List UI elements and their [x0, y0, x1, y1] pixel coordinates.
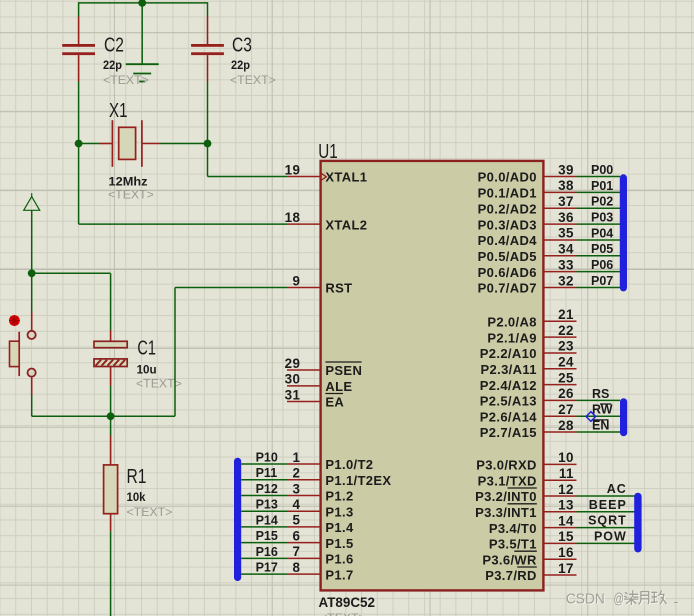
svg-text:P07: P07	[591, 274, 613, 288]
svg-text:18: 18	[285, 210, 301, 225]
svg-text:AC: AC	[607, 482, 627, 496]
svg-text:SQRT: SQRT	[588, 514, 627, 528]
svg-text:P1.3: P1.3	[325, 504, 353, 519]
pin 27 stub	[544, 415, 577, 417]
wire arrow to button	[31, 210, 33, 311]
svg-text:P2.5/A13: P2.5/A13	[480, 394, 537, 409]
svg-text:<TEXT>: <TEXT>	[320, 611, 366, 616]
wire C1 to bottom rail	[110, 386, 112, 416]
IC U1 AT89C52 body	[321, 161, 544, 591]
svg-text:P1.1/T2EX: P1.1/T2EX	[325, 473, 391, 488]
svg-text:10: 10	[558, 450, 574, 465]
svg-text:P1.2: P1.2	[325, 489, 353, 504]
pin name P3.2/INT0	[475, 488, 537, 504]
svg-text:7: 7	[293, 544, 301, 559]
svg-text:19: 19	[285, 162, 301, 177]
svg-text:C2: C2	[104, 34, 124, 57]
svg-text:16: 16	[558, 545, 574, 560]
power terminal arrow	[24, 193, 40, 210]
svg-text:P13: P13	[256, 498, 278, 512]
pin 6 stub	[287, 542, 320, 544]
wire AC net	[577, 495, 637, 497]
pin 15 stub	[544, 542, 577, 544]
bus bar P0	[620, 178, 627, 288]
junction top rail	[138, 0, 146, 7]
svg-text:ALE: ALE	[325, 379, 352, 394]
svg-text:4: 4	[293, 497, 301, 512]
pin 8 stub	[287, 573, 320, 575]
svg-text:3: 3	[293, 481, 301, 496]
svg-text:P1.0/T2: P1.0/T2	[325, 457, 373, 472]
svg-text:P0.5/AD5: P0.5/AD5	[478, 249, 537, 264]
wire P15 net	[241, 542, 287, 544]
junction bottom rail	[107, 412, 115, 420]
svg-text:AT89C52: AT89C52	[319, 595, 376, 610]
wire POW net	[577, 542, 637, 544]
svg-text:36: 36	[558, 210, 574, 225]
svg-text:P0.2/AD2: P0.2/AD2	[478, 201, 537, 216]
svg-text:<TEXT>: <TEXT>	[127, 505, 173, 519]
svg-text:39: 39	[558, 162, 574, 177]
svg-text:30: 30	[285, 372, 301, 387]
pin XTAL1 input marker	[321, 173, 327, 181]
wire P01 net	[577, 191, 621, 193]
svg-text:5: 5	[293, 513, 301, 528]
svg-text:P02: P02	[591, 195, 613, 209]
svg-text:P3.5/T1: P3.5/T1	[489, 537, 537, 552]
pin 31 stub	[287, 401, 320, 403]
svg-text:P2.2/A10: P2.2/A10	[480, 346, 537, 361]
svg-text:12Mhz: 12Mhz	[109, 175, 148, 189]
svg-text:P11: P11	[256, 466, 278, 480]
svg-text:22p: 22p	[231, 58, 250, 72]
pin name EA	[325, 394, 344, 410]
svg-text:P3.6/WR: P3.6/WR	[482, 552, 537, 567]
pin 36 stub	[544, 223, 577, 225]
svg-text:XTAL1: XTAL1	[325, 170, 367, 185]
svg-text:10u: 10u	[137, 362, 157, 376]
wire button to bottom rail	[31, 395, 33, 416]
pin 22 stub	[544, 336, 577, 338]
svg-text:27: 27	[558, 402, 574, 417]
svg-text:P2.6/A14: P2.6/A14	[480, 409, 537, 424]
svg-text:P0.4/AD4: P0.4/AD4	[478, 233, 538, 248]
pin name PSEN	[325, 362, 362, 378]
pin 13 stub	[544, 511, 577, 513]
svg-text:PSEN: PSEN	[325, 363, 362, 378]
svg-text:12: 12	[558, 482, 574, 497]
svg-text:8: 8	[293, 560, 301, 575]
wire P16 net	[241, 557, 287, 559]
svg-text:P14: P14	[256, 513, 278, 527]
svg-text:RST: RST	[325, 281, 352, 296]
pin 2 stub	[287, 479, 320, 481]
pin 30 stub	[287, 385, 320, 387]
svg-text:P3.4/T0: P3.4/T0	[489, 521, 537, 536]
pin name P3.7/RD	[485, 567, 537, 583]
wire P12 net	[241, 494, 287, 496]
pin 16 stub	[544, 558, 577, 560]
pin 14 stub	[544, 527, 577, 529]
pin 23 stub	[544, 352, 577, 354]
crystal X1 wires	[79, 143, 208, 145]
svg-text:P1.5: P1.5	[325, 536, 353, 551]
svg-text:P0.0/AD0: P0.0/AD0	[478, 170, 537, 185]
button actuator dot	[9, 315, 20, 326]
capacitor C3 leads	[207, 17, 209, 82]
pin 10 stub	[544, 463, 577, 465]
button top lead	[31, 312, 33, 331]
svg-text:P2.1/A9: P2.1/A9	[487, 330, 536, 345]
svg-text:P15: P15	[256, 529, 278, 543]
pin 37 stub	[544, 207, 577, 209]
svg-text:33: 33	[558, 257, 574, 272]
wire R1 top	[110, 416, 112, 435]
svg-text:10k: 10k	[127, 490, 146, 504]
wire C2 to XTAL2	[78, 82, 80, 225]
button top contact	[28, 331, 36, 339]
svg-text:15: 15	[558, 529, 574, 544]
svg-text:POW: POW	[594, 530, 627, 544]
svg-text:P00: P00	[591, 163, 613, 177]
svg-text:25: 25	[558, 370, 574, 385]
svg-text:37: 37	[558, 194, 574, 209]
pin 39 stub	[544, 176, 577, 178]
svg-text:EA: EA	[325, 395, 344, 410]
wire XTAL2 horizontal	[79, 223, 287, 225]
wire RST horizontal	[175, 287, 287, 289]
wire P03 net	[577, 223, 621, 225]
capacitor C2 plates	[62, 44, 95, 55]
crystal X1	[99, 120, 160, 167]
wire to C1 branch	[32, 272, 111, 274]
svg-text:BEEP: BEEP	[589, 498, 627, 512]
svg-text:P3.7/RD: P3.7/RD	[485, 568, 537, 583]
pin 34 stub	[544, 255, 577, 257]
wire P02 net	[577, 207, 621, 209]
svg-text:P0.1/AD1: P0.1/AD1	[478, 186, 537, 201]
pin 19 stub	[287, 176, 320, 178]
watermark CSDN	[566, 591, 678, 609]
svg-text:2: 2	[293, 466, 301, 481]
bus bar P1	[234, 461, 241, 577]
pin 28 stub	[544, 431, 577, 433]
pin 24 stub	[544, 368, 577, 370]
wire top rail C2-C3	[79, 2, 208, 4]
svg-text:P2.4/A12: P2.4/A12	[480, 378, 537, 393]
svg-text:11: 11	[559, 466, 574, 481]
svg-text:C3: C3	[232, 34, 252, 57]
resistor R1	[104, 436, 118, 532]
pin 25 stub	[544, 384, 577, 386]
capacitor C1 bottom lead	[110, 367, 112, 386]
capacitor C2 leads	[78, 17, 80, 82]
svg-text:23: 23	[558, 339, 574, 354]
svg-text:P1.4: P1.4	[325, 520, 354, 535]
svg-text:P0.3/AD3: P0.3/AD3	[478, 217, 537, 232]
wire P14 net	[241, 526, 287, 528]
svg-text:9: 9	[293, 273, 301, 288]
pin 17 stub	[544, 574, 577, 576]
net label EN	[592, 418, 610, 432]
button body	[10, 332, 20, 376]
svg-text:22: 22	[558, 323, 574, 338]
svg-text:14: 14	[558, 513, 574, 528]
svg-text:<TEXT>: <TEXT>	[108, 188, 154, 202]
svg-text:P3.3/INT1: P3.3/INT1	[475, 505, 537, 520]
svg-text:<TEXT>: <TEXT>	[103, 73, 149, 87]
svg-text:P2.7/A15: P2.7/A15	[480, 425, 537, 440]
wire BEEP net	[577, 511, 637, 513]
capacitor C1 bottom plate	[94, 359, 127, 367]
svg-text:RS: RS	[592, 387, 609, 401]
svg-text:28: 28	[558, 418, 574, 433]
wire C3 to XTAL1	[207, 82, 209, 177]
svg-text:22p: 22p	[103, 58, 122, 72]
capacitor C1 top lead	[110, 330, 112, 341]
svg-text:21: 21	[558, 307, 574, 322]
capacitor C1 top plate	[94, 341, 127, 347]
svg-text:38: 38	[558, 178, 574, 193]
svg-text:EN: EN	[592, 418, 609, 432]
pin 5 stub	[287, 526, 320, 528]
svg-text:@: @	[614, 592, 624, 608]
svg-text:P2.0/A8: P2.0/A8	[487, 315, 536, 330]
pin 38 stub	[544, 191, 577, 193]
pin 26 stub	[544, 399, 577, 401]
svg-text:R1: R1	[127, 465, 147, 488]
svg-text:U1: U1	[318, 140, 338, 163]
wire EN net	[577, 431, 621, 433]
svg-text:P3.2/INT0: P3.2/INT0	[475, 489, 537, 504]
pin 1 stub	[287, 463, 320, 465]
pin 7 stub	[287, 557, 320, 559]
pin 33 stub	[544, 271, 577, 273]
wire RST vertical	[174, 288, 176, 417]
svg-text:P1.6: P1.6	[325, 552, 353, 567]
pin 9 stub	[287, 287, 320, 289]
wire ground drop	[141, 3, 143, 64]
node marker RW	[586, 412, 596, 422]
wire RW net	[577, 415, 621, 417]
svg-text:CSDN: CSDN	[566, 592, 605, 608]
wire P13 net	[241, 510, 287, 512]
svg-text:34: 34	[558, 242, 574, 257]
pin 18 stub	[287, 223, 320, 225]
svg-text:P17: P17	[256, 561, 278, 575]
pin 3 stub	[287, 494, 320, 496]
pin 4 stub	[287, 510, 320, 512]
wire XTAL1 horizontal	[208, 176, 288, 178]
wire SQRT net	[577, 527, 637, 529]
svg-text:24: 24	[558, 355, 574, 370]
wire P06 net	[577, 271, 621, 273]
svg-text:P06: P06	[591, 258, 613, 272]
svg-text:31: 31	[285, 387, 301, 402]
svg-text:P01: P01	[591, 179, 613, 193]
svg-text:X1: X1	[109, 99, 128, 122]
wire R1 to bottom edge	[110, 531, 112, 616]
svg-text:P03: P03	[591, 210, 613, 224]
wire P00 net	[577, 176, 621, 178]
wire P07 net	[577, 287, 621, 289]
svg-text:P3.1/TXD: P3.1/TXD	[478, 473, 537, 488]
svg-text:RW: RW	[592, 403, 613, 417]
wire bottom rail	[32, 415, 175, 417]
wire C3 top drop	[207, 2, 209, 16]
pin 32 stub	[544, 287, 577, 289]
svg-text:6: 6	[293, 528, 301, 543]
svg-text:13: 13	[558, 498, 574, 513]
bus bar RS/RW/EN	[620, 402, 627, 433]
svg-text:P0.6/AD6: P0.6/AD6	[478, 265, 537, 280]
pin 21 stub	[544, 320, 577, 322]
svg-text:17: 17	[558, 561, 574, 576]
net label RW	[592, 403, 613, 417]
wire P10 net	[241, 463, 287, 465]
wire C1 top drop	[110, 273, 112, 330]
wire RS net	[577, 399, 621, 401]
pin name P3.3/INT1	[475, 504, 537, 520]
svg-text:P0.7/AD7: P0.7/AD7	[478, 281, 537, 296]
svg-text:32: 32	[558, 273, 574, 288]
junction crystal right	[204, 140, 212, 148]
svg-text:P1.7: P1.7	[325, 567, 353, 582]
svg-text:P10: P10	[256, 450, 278, 464]
ground symbol	[126, 64, 159, 81]
svg-text:P12: P12	[256, 482, 278, 496]
wire P11 net	[241, 479, 287, 481]
svg-text:P3.0/RXD: P3.0/RXD	[476, 458, 537, 473]
pin name P3.6/WR	[482, 551, 537, 567]
svg-text:C1: C1	[137, 337, 156, 360]
svg-text:26: 26	[558, 386, 574, 401]
svg-text:XTAL2: XTAL2	[325, 217, 367, 232]
pin 35 stub	[544, 239, 577, 241]
button bottom lead	[31, 377, 33, 396]
wire C2 top drop	[78, 2, 80, 16]
junction crystal left	[75, 140, 83, 148]
svg-text:P04: P04	[591, 226, 613, 240]
bus bar AC/BEEP/SQRT/POW	[634, 496, 641, 548]
svg-text:P2.3/A11: P2.3/A11	[481, 362, 537, 377]
svg-text:<TEXT>: <TEXT>	[230, 73, 276, 87]
svg-text:29: 29	[285, 356, 301, 371]
wire P17 net	[241, 573, 287, 575]
pin 11 stub	[544, 479, 577, 481]
wire P05 net	[577, 255, 621, 257]
capacitor C3 plates	[191, 44, 224, 55]
svg-text:35: 35	[558, 226, 574, 241]
wire P04 net	[577, 239, 621, 241]
svg-text:1: 1	[293, 450, 301, 465]
button bottom contact	[28, 369, 36, 377]
svg-text:P16: P16	[256, 545, 278, 559]
pin 29 stub	[287, 369, 320, 371]
junction button branch	[28, 269, 36, 277]
pin 12 stub	[544, 495, 577, 497]
svg-text:P05: P05	[591, 242, 613, 256]
